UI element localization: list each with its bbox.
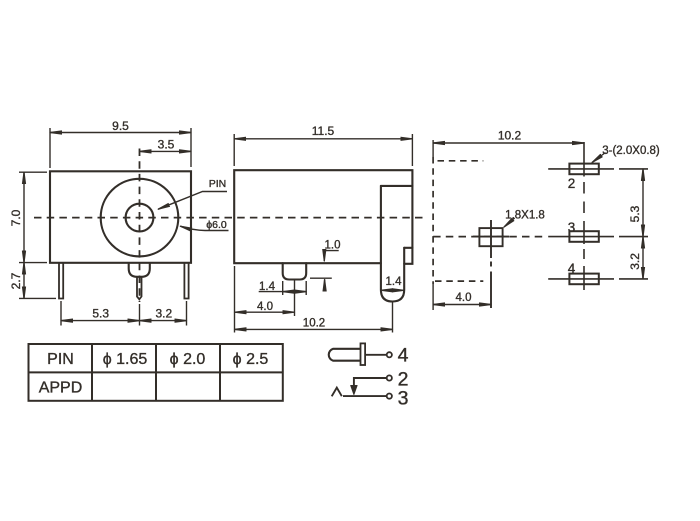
pin centerline extension — [392, 302, 394, 333]
dim 5.3 line — [61, 320, 140, 322]
schematic terminal 4 circle — [387, 352, 392, 357]
dim 2.7 line — [23, 263, 25, 299]
svg-text:ϕ6.0: ϕ6.0 — [206, 219, 227, 231]
svg-text:3: 3 — [398, 388, 409, 410]
svg-text:1.8X1.8: 1.8X1.8 — [505, 210, 545, 222]
footprint left extension top — [432, 140, 434, 157]
footprint left extension bottom — [432, 284, 434, 310]
square centerline down — [490, 262, 492, 267]
footprint dim 4.0 line — [433, 304, 491, 306]
dim 5.3/3.2 extension lines — [60, 301, 62, 326]
svg-text:ϕ 1.65: ϕ 1.65 — [103, 351, 148, 368]
slot 2 horizontal centerline — [548, 168, 614, 170]
schematic contact arrow — [351, 386, 357, 395]
PIN leader — [158, 192, 227, 210]
schematic wire terminal 3 — [343, 395, 387, 397]
horizontal centerline through front and side views — [34, 217, 425, 219]
svg-text:3.5: 3.5 — [158, 138, 175, 152]
svg-text:1.4: 1.4 — [259, 281, 276, 293]
spec table outer border — [29, 344, 283, 401]
side view left extension line — [234, 266, 236, 333]
svg-text:1.4: 1.4 — [386, 276, 403, 288]
svg-text:APPD: APPD — [39, 379, 83, 396]
front view vertical centerline — [139, 149, 141, 303]
svg-text:4: 4 — [398, 345, 409, 367]
pad slot 3 — [569, 231, 598, 242]
table column separators — [91, 344, 93, 401]
front view right leg — [184, 263, 188, 299]
side view pin barrel with round tip — [381, 186, 404, 302]
svg-text:9.5: 9.5 — [112, 119, 129, 133]
svg-text:11.5: 11.5 — [312, 124, 335, 138]
dim 1.4 pin line — [381, 289, 404, 291]
dim 4.0 line — [235, 311, 295, 313]
square crosshair vertical — [490, 220, 492, 258]
square crosshair horizontal — [473, 236, 509, 238]
dim 11.5 line — [234, 138, 412, 140]
dim 10.2 line — [235, 328, 393, 330]
svg-text:4.0: 4.0 — [257, 301, 273, 313]
leader 1.8X1.8 — [504, 218, 515, 227]
footprint dim 10.2 line — [433, 142, 584, 144]
svg-text:5.3: 5.3 — [628, 205, 642, 222]
svg-text:7.0: 7.0 — [9, 209, 23, 226]
dim 11.5 extension lines — [233, 134, 235, 166]
front view body outline — [50, 171, 191, 262]
side view body outline — [234, 170, 412, 263]
footprint dim 5.3 line — [642, 169, 644, 237]
footprint hidden outline top — [438, 160, 484, 162]
dim 7.0 line — [23, 172, 25, 262]
slot 4 horizontal centerline — [548, 278, 614, 280]
front view pin dome — [129, 263, 150, 277]
svg-text:ϕ 2.0: ϕ 2.0 — [170, 351, 206, 368]
front view center pin circle — [126, 204, 154, 232]
footprint dim 3.2 line — [642, 237, 644, 279]
leader 3-(2.0X0.8) — [592, 153, 606, 163]
svg-text:4.0: 4.0 — [456, 292, 472, 304]
dim 9.5 line — [50, 132, 191, 134]
bump bottom extension line — [310, 277, 332, 279]
svg-text:PIN: PIN — [209, 178, 227, 190]
front view pin shaft — [137, 277, 142, 300]
schematic wire terminal 2 — [354, 378, 387, 385]
svg-text:1.0: 1.0 — [325, 240, 341, 252]
dim 7.0 extension lines — [19, 171, 47, 173]
svg-text:3.2: 3.2 — [155, 307, 172, 321]
dim 1.4 bump extension lines — [282, 281, 284, 295]
svg-text:10.2: 10.2 — [303, 318, 325, 330]
svg-text:3-(2.0X0.8): 3-(2.0X0.8) — [602, 145, 660, 157]
slots vertical centerline — [583, 142, 585, 177]
schematic switch lever — [332, 388, 342, 397]
dim 1.4 bump line — [259, 291, 283, 293]
table row separator — [29, 371, 283, 373]
pad slot 2 — [569, 164, 598, 175]
side view pin shoulder — [381, 185, 413, 187]
schematic terminal 3 circle — [387, 394, 392, 399]
leader 1.0 bent arrow — [324, 251, 338, 261]
front view barrel circle — [101, 179, 179, 257]
side view right tab — [404, 248, 412, 264]
mounting hole square 1.8x1.8 — [479, 228, 502, 246]
pad slot 4 — [569, 274, 598, 285]
svg-text:2.7: 2.7 — [9, 272, 23, 289]
bump centerline — [294, 281, 296, 317]
schematic plug crossbar — [361, 343, 366, 365]
front view left leg — [59, 263, 63, 299]
schematic wire to terminal 4 — [366, 354, 386, 356]
dia 6.0 leader — [180, 226, 228, 230]
svg-text:4: 4 — [568, 261, 576, 276]
svg-text:5.3: 5.3 — [92, 307, 109, 321]
footprint hidden outline bottom — [435, 280, 483, 282]
svg-text:10.2: 10.2 — [498, 129, 522, 143]
dim 9.5 extension lines — [49, 128, 51, 168]
footprint horizontal centerline dashed — [433, 236, 546, 238]
dim 3.5 line — [140, 150, 192, 152]
side view bottom bump — [283, 263, 307, 279]
svg-text:3.2: 3.2 — [628, 253, 642, 270]
svg-text:2: 2 — [568, 176, 576, 191]
up arrow to bump bottom — [324, 280, 326, 291]
slot 3 horizontal centerline — [548, 236, 614, 238]
schematic terminal 2 circle — [387, 375, 392, 380]
svg-text:ϕ 2.5: ϕ 2.5 — [233, 351, 269, 368]
svg-text:PIN: PIN — [47, 351, 74, 368]
svg-text:3: 3 — [568, 220, 576, 235]
dim 3.2 line — [140, 320, 187, 322]
footprint hidden outline left vertical — [432, 157, 434, 284]
schematic plug bullet — [329, 349, 361, 361]
